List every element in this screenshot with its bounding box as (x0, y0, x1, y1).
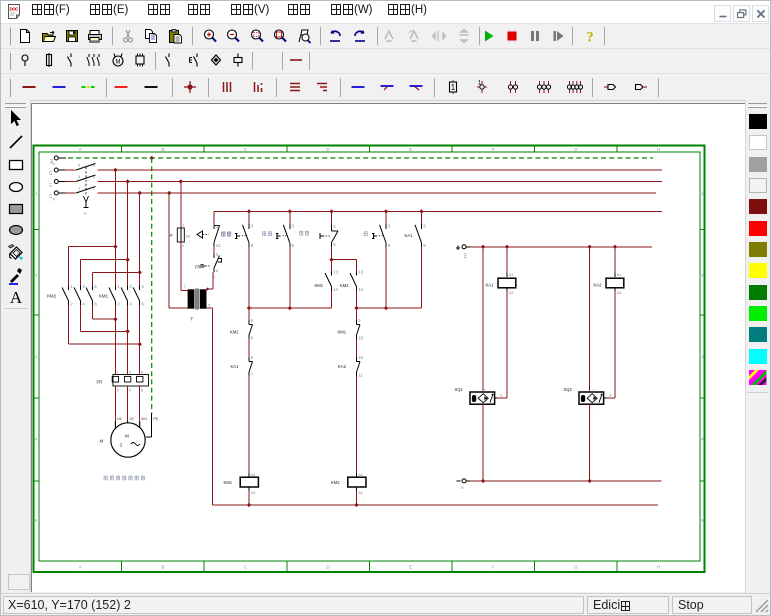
wire jog to KM2 interlock branch (332, 259, 357, 261)
svg-text:11: 11 (358, 372, 363, 377)
svg-text:6: 6 (141, 389, 143, 393)
node coil return junctions (247, 503, 359, 507)
palette swatch 1 (749, 114, 767, 129)
svg-text:2: 2 (117, 389, 119, 393)
wire stop button to control bus (213, 211, 215, 226)
svg-text:-M: -M (99, 439, 104, 444)
svg-text:G: G (574, 147, 578, 152)
wire rail L3 (98, 169, 663, 171)
wire +24V to sensor SQ2 (589, 247, 591, 391)
wire L2 tap to fuse (180, 182, 182, 229)
svg-text:5: 5 (701, 518, 704, 523)
svg-text:+: + (484, 388, 486, 392)
start pushbutton SB2 (222, 211, 254, 248)
svg-text:5: 5 (35, 518, 38, 523)
stop pushbutton SB1 (197, 224, 231, 248)
svg-text:KM2: KM2 (340, 283, 349, 288)
svg-text:KA1: KA1 (231, 364, 240, 369)
wire KM1 aux to holding bus (331, 291, 333, 309)
terminal PE (49, 156, 66, 164)
left tool panel (1, 100, 31, 593)
node jog split (329, 258, 333, 262)
caption text under motor (104, 476, 145, 480)
svg-text:1: 1 (182, 224, 184, 228)
svg-text:KM1: KM1 (224, 480, 233, 485)
proximity sensor SQ2 (564, 387, 613, 411)
drawing sheet outer border (34, 146, 705, 573)
node holding bus junctions (247, 306, 292, 310)
left panel bottom box (8, 574, 30, 590)
terminal L1 (49, 191, 76, 202)
wire FR to stop button (213, 247, 215, 255)
coil KM1 (224, 473, 259, 495)
svg-text:KA2: KA2 (338, 364, 347, 369)
svg-text:KA1: KA1 (486, 283, 495, 288)
svg-text:A2: A2 (358, 491, 363, 495)
wire SB3 to holding bus (289, 247, 291, 308)
wire jog L1 to KM2 pole3 (93, 272, 140, 286)
svg-text:6: 6 (251, 335, 254, 340)
svg-text:5: 5 (208, 304, 210, 308)
svg-text:1: 1 (70, 284, 73, 289)
svg-text:?: ? (586, 30, 594, 45)
svg-text:50: 50 (186, 235, 190, 239)
coil KA2 (594, 273, 624, 295)
svg-text:5: 5 (251, 318, 254, 323)
svg-text:SQ1: SQ1 (455, 387, 464, 392)
wire KM1 coil to return rail (248, 487, 250, 505)
svg-text:T: T (191, 317, 194, 322)
palette swatch 10 (749, 306, 767, 321)
node cross-jog junctions (113, 317, 142, 346)
svg-text:S: S (609, 394, 612, 398)
auxiliary contact KM2 (13-14) (340, 260, 364, 292)
svg-text:A: A (10, 288, 23, 306)
svg-text:C: C (244, 147, 248, 152)
palette swatch 5 (749, 199, 767, 214)
drawing canvas (31, 103, 745, 592)
svg-text:5: 5 (142, 284, 145, 289)
relay contact KA1 (3-9) (405, 211, 427, 248)
menu items (31, 4, 70, 20)
wire KA2 coil to SQ2 output (607, 287, 615, 398)
svg-text:2: 2 (701, 273, 704, 278)
thermal overload relay FR (97, 371, 149, 393)
auxiliary contact KM1 (13-14) (315, 260, 339, 292)
svg-text:6: 6 (94, 301, 97, 306)
transformer T (184, 275, 215, 322)
svg-text:D: D (326, 147, 330, 152)
svg-text:4: 4 (35, 436, 38, 441)
contactor KM1 main contacts (99, 284, 145, 306)
terminal 0V (457, 479, 471, 489)
svg-text:H: H (657, 565, 660, 570)
svg-text:1: 1 (478, 81, 482, 87)
svg-text:L3: L3 (49, 171, 54, 176)
palette swatch 2 (749, 135, 767, 150)
wire holding bus segment B (357, 307, 422, 309)
svg-text:W1: W1 (141, 416, 147, 421)
palette swatch 4 (749, 178, 767, 193)
svg-text:1: 1 (701, 191, 704, 196)
svg-text:5: 5 (141, 371, 143, 375)
svg-text:4: 4 (129, 389, 131, 393)
svg-text:4: 4 (701, 436, 704, 441)
wire KA1 branch to bus segment B end (421, 247, 423, 308)
svg-text:9: 9 (423, 243, 426, 248)
svg-text:5: 5 (94, 284, 97, 289)
svg-text:12: 12 (216, 243, 221, 248)
svg-text:B: B (161, 147, 164, 152)
palette swatch 13 (749, 370, 767, 385)
terminal L2 (49, 180, 76, 188)
svg-text:-0: -0 (460, 486, 464, 489)
wire SB4 lower stub (331, 247, 333, 260)
svg-text:PE: PE (153, 416, 159, 421)
svg-text:3: 3 (216, 252, 219, 257)
svg-text:S: S (500, 394, 503, 398)
motor M (99, 423, 146, 457)
node PE tap junction (150, 156, 154, 160)
palette swatch 8 (749, 263, 767, 278)
svg-text:1: 1 (117, 284, 120, 289)
svg-text:B: B (161, 565, 164, 570)
svg-text:7: 7 (251, 372, 254, 377)
wire SQ2 to 0V rail (589, 404, 591, 481)
wire phase A dropper (114, 170, 116, 375)
svg-text:+: + (593, 388, 595, 392)
svg-text:E: E (409, 565, 412, 570)
svg-text:1: 1 (35, 191, 38, 196)
wire PE drop to motor (green dashed) (151, 158, 153, 414)
toolbar row 1 (1, 24, 770, 49)
svg-text:10: 10 (358, 355, 363, 360)
wire jog L2 to KM2 pole2 (81, 260, 128, 286)
node +24V rail taps (481, 245, 617, 249)
svg-text:KM1: KM1 (99, 294, 109, 299)
svg-text:3: 3 (78, 175, 80, 179)
svg-text:A: A (79, 565, 83, 570)
start pushbutton SB3 (263, 211, 295, 248)
wire fuse to transformer primary top (181, 242, 188, 291)
svg-text:KM1: KM1 (338, 330, 347, 335)
wire control bus L+ (214, 210, 662, 212)
wire +24V to sensor SQ1 (482, 247, 484, 391)
svg-text:D: D (326, 565, 330, 570)
svg-text:6: 6 (251, 355, 254, 360)
svg-text:4: 4 (129, 301, 132, 306)
svg-text:3: 3 (129, 371, 131, 375)
wire +24V to KA1 coil (506, 247, 508, 277)
svg-text:X: X (53, 162, 56, 166)
proximity sensor SQ1 (455, 387, 504, 411)
svg-text:FR: FR (97, 380, 103, 385)
svg-text:DOC: DOC (10, 7, 20, 12)
svg-text:2: 2 (182, 244, 184, 248)
sheet margin ticks and zone labels (34, 146, 705, 573)
palette swatch 9 (749, 285, 767, 300)
title bar (1, 0, 770, 24)
svg-text:M: M (125, 434, 129, 439)
svg-text:10: 10 (358, 335, 363, 340)
svg-text:5: 5 (251, 243, 254, 248)
svg-text:1: 1 (117, 371, 119, 375)
wire KA2 contact to KM2 coil (356, 376, 358, 477)
svg-text:C: C (244, 565, 248, 570)
svg-text:3: 3 (423, 224, 426, 229)
svg-text:KA2: KA2 (594, 283, 603, 288)
svg-text:6: 6 (93, 164, 95, 168)
svg-text:X: X (53, 198, 56, 202)
svg-text:A1: A1 (617, 273, 622, 277)
svg-text:KA1: KA1 (405, 233, 414, 238)
status bar (1, 593, 770, 616)
motor M terminal stubs (115, 416, 158, 428)
svg-text:F: F (492, 565, 495, 570)
svg-text:KM1: KM1 (315, 283, 324, 288)
svg-text:4: 4 (93, 175, 95, 179)
svg-text:1: 1 (451, 83, 456, 92)
coil KA1 (486, 273, 516, 295)
svg-text:3: 3 (333, 224, 336, 229)
svg-text:5: 5 (292, 243, 295, 248)
switch Q mechanical link and handle (83, 167, 89, 216)
wire rail L2 (98, 181, 663, 183)
svg-text:A1: A1 (509, 273, 514, 277)
auxiliary contact KM2 (5-6) (230, 308, 254, 340)
svg-text:3: 3 (129, 284, 132, 289)
palette swatch 12 (749, 349, 767, 364)
wire FR to motor terminals (115, 386, 139, 421)
thermal contact FR (control) (195, 252, 222, 273)
wire L1 tap to transformer primary bottom (169, 193, 187, 308)
wire PE motor lead (146, 414, 152, 438)
svg-text:-: - (484, 407, 485, 411)
svg-text:KM2: KM2 (230, 330, 239, 335)
svg-text:13: 13 (333, 270, 338, 275)
node jog junctions on droppers (113, 244, 142, 274)
svg-text:3: 3 (82, 284, 85, 289)
svg-text:2: 2 (93, 187, 95, 191)
window buttons (714, 5, 731, 22)
palette swatch 11 (749, 327, 767, 342)
node control bus taps (247, 209, 424, 213)
node bus B junctions (354, 306, 388, 310)
svg-text:-S: -S (83, 212, 87, 216)
svg-text:KM2: KM2 (47, 294, 57, 299)
wire KM2 coil to return rail (356, 487, 358, 505)
palette swatch 7 (749, 242, 767, 257)
svg-text:13: 13 (358, 270, 363, 275)
interlock contact KM1 (9-10) (338, 308, 364, 340)
wire rail L1 (98, 192, 657, 194)
svg-text:A1: A1 (251, 473, 256, 477)
svg-text:9: 9 (358, 318, 361, 323)
svg-text:-: - (593, 407, 594, 411)
node 0V rail junctions (481, 479, 592, 483)
relay contact KA1 (6-7) (231, 339, 254, 377)
svg-text:14: 14 (358, 287, 363, 292)
svg-text:U1: U1 (117, 416, 122, 421)
svg-text:1: 1 (78, 187, 80, 191)
resize grip (753, 597, 769, 613)
svg-text:2: 2 (35, 273, 38, 278)
svg-text:FR: FR (195, 265, 201, 270)
fuse FU (169, 224, 190, 249)
coil KM2 (331, 473, 366, 495)
svg-text:A2: A2 (509, 291, 514, 295)
svg-text:A: A (79, 147, 83, 152)
wire SQ1 to 0V rail (482, 404, 484, 481)
svg-text:3: 3 (35, 355, 38, 360)
svg-text:5: 5 (78, 164, 80, 168)
svg-text:A2: A2 (617, 291, 622, 295)
svg-text:3: 3 (251, 224, 254, 229)
svg-text:F: F (492, 147, 495, 152)
wire KM2 outputs cross-jogs (69, 305, 140, 344)
svg-text:2: 2 (184, 285, 186, 289)
wire control return rail (212, 504, 658, 506)
svg-text:6: 6 (142, 301, 145, 306)
wire SB5 to bus segment B (385, 247, 387, 308)
wire KA1 coil to SQ1 output (498, 287, 507, 398)
svg-text:V1: V1 (129, 416, 134, 421)
svg-text:A2: A2 (251, 491, 256, 495)
wire transformer secondary return (207, 308, 213, 505)
svg-text:3: 3 (292, 224, 295, 229)
svg-text:H: H (657, 147, 660, 152)
wire phase B dropper (127, 182, 129, 375)
svg-text:14: 14 (333, 287, 338, 292)
colour palette panel (745, 100, 771, 593)
svg-text:A1: A1 (358, 473, 363, 477)
svg-text:SQ2: SQ2 (564, 387, 573, 392)
wire +24V to KA2 coil (614, 247, 616, 277)
jog pushbutton SB4 (300, 211, 339, 247)
wire +24V rail (470, 246, 652, 248)
svg-text:3: 3 (388, 224, 391, 229)
palette swatch 6 (749, 221, 767, 236)
wire transformer secondary top riser (206, 272, 213, 291)
svg-text:3: 3 (701, 355, 704, 360)
svg-text:4: 4 (82, 301, 85, 306)
svg-text:4: 4 (216, 268, 219, 273)
wire SB2 to holding bus (248, 247, 250, 308)
terminal +24V (456, 245, 470, 259)
wire KM2 aux to bus segment B (356, 291, 358, 309)
wire PE bus (green dashed) (68, 157, 653, 159)
wire 0V rail (470, 480, 662, 482)
toolbar row 3 (1, 74, 770, 101)
app icon (6, 3, 23, 20)
toolbar row 2 (1, 49, 770, 74)
svg-text:KM2: KM2 (331, 480, 340, 485)
svg-text:2: 2 (117, 301, 120, 306)
pushbutton SB5 (364, 211, 391, 248)
wire KA1 contact to KM1 coil (248, 376, 250, 477)
contactor KM2 main contacts (47, 284, 97, 306)
svg-text:E: E (409, 147, 412, 152)
svg-text:9: 9 (388, 243, 391, 248)
svg-text:2: 2 (70, 301, 73, 306)
wire jog L3 to KM2 pole1 (69, 247, 116, 286)
terminal L3 (49, 162, 76, 176)
disconnect switch Q blades (76, 164, 96, 194)
palette swatch 3 (749, 157, 767, 172)
svg-text:+24: +24 (463, 252, 467, 258)
node taps on rails (113, 168, 183, 195)
wire phase C dropper (139, 193, 141, 375)
svg-text:6: 6 (333, 242, 336, 247)
svg-text:11: 11 (216, 224, 221, 229)
svg-text:L2: L2 (49, 183, 54, 188)
wire holding bus segment A (249, 307, 332, 309)
svg-text:M: M (115, 60, 120, 66)
svg-text:G: G (574, 565, 578, 570)
relay contact KA2 (10-11) (338, 339, 364, 377)
